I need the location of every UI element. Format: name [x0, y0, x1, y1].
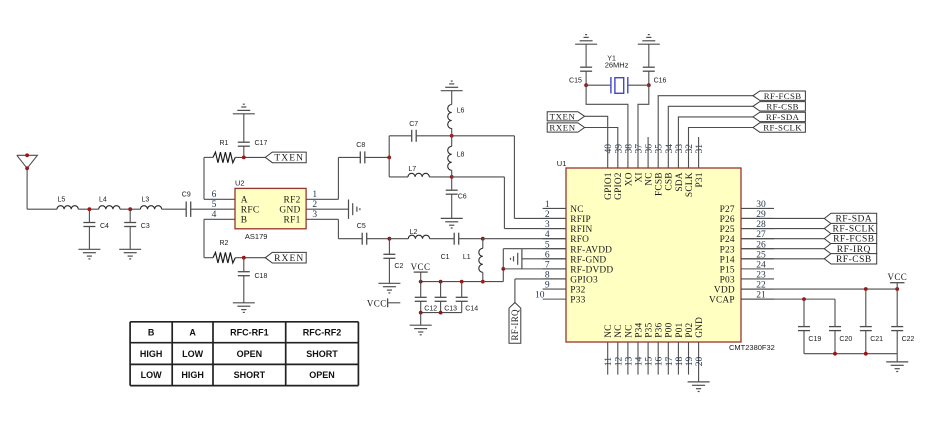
- svg-text:34: 34: [665, 144, 675, 154]
- svg-text:26MHz: 26MHz: [605, 60, 629, 69]
- svg-text:P02: P02: [685, 322, 695, 337]
- svg-text:RFC-RF2: RFC-RF2: [303, 327, 342, 337]
- svg-text:LOW: LOW: [141, 370, 162, 380]
- svg-text:VCC: VCC: [367, 299, 387, 309]
- svg-text:15: 15: [645, 356, 655, 366]
- svg-text:A: A: [189, 327, 196, 337]
- svg-text:A: A: [241, 196, 248, 206]
- svg-text:RF1: RF1: [284, 216, 301, 226]
- svg-text:C8: C8: [356, 142, 365, 149]
- svg-text:C1: C1: [441, 254, 450, 261]
- svg-text:NC: NC: [570, 205, 583, 215]
- svg-text:P01: P01: [675, 322, 685, 337]
- svg-text:RF-FCSB: RF-FCSB: [764, 91, 802, 101]
- svg-text:L7: L7: [408, 166, 416, 173]
- svg-text:U2: U2: [235, 178, 245, 187]
- svg-text:16: 16: [655, 356, 665, 366]
- svg-text:RFC-RF1: RFC-RF1: [230, 327, 269, 337]
- svg-text:VCC: VCC: [887, 272, 907, 282]
- svg-text:C7: C7: [409, 121, 418, 128]
- svg-text:RXEN: RXEN: [549, 123, 575, 133]
- svg-text:L6: L6: [457, 107, 465, 114]
- svg-text:GPIO3: GPIO3: [570, 276, 598, 286]
- svg-text:GND: GND: [279, 206, 300, 216]
- svg-text:31: 31: [695, 144, 705, 154]
- svg-text:C20: C20: [839, 336, 852, 343]
- svg-text:FCSB: FCSB: [655, 172, 665, 196]
- svg-text:C22: C22: [902, 336, 915, 343]
- svg-text:NC: NC: [624, 324, 634, 337]
- svg-text:39: 39: [614, 144, 624, 154]
- svg-text:GPIO1: GPIO1: [604, 172, 614, 200]
- svg-text:24: 24: [756, 260, 766, 270]
- svg-text:9: 9: [545, 281, 550, 291]
- svg-text:L3: L3: [142, 196, 150, 203]
- svg-text:C2: C2: [394, 263, 403, 270]
- svg-text:P31: P31: [695, 172, 705, 187]
- svg-text:P36: P36: [655, 322, 665, 337]
- svg-text:GPIO2: GPIO2: [614, 172, 624, 200]
- svg-text:17: 17: [665, 356, 675, 366]
- svg-text:R1: R1: [220, 140, 229, 147]
- svg-text:P27: P27: [720, 205, 735, 215]
- svg-text:C6: C6: [458, 194, 467, 201]
- svg-text:RF-IRQ: RF-IRQ: [510, 309, 520, 341]
- svg-text:RF-DVDD: RF-DVDD: [570, 265, 613, 275]
- svg-text:P14: P14: [720, 255, 735, 265]
- svg-text:B: B: [241, 216, 248, 226]
- svg-text:SHORT: SHORT: [234, 370, 266, 380]
- svg-text:32: 32: [685, 144, 695, 154]
- svg-text:18: 18: [675, 356, 685, 366]
- svg-text:P03: P03: [720, 276, 735, 286]
- svg-text:P32: P32: [570, 286, 585, 296]
- svg-text:HIGH: HIGH: [181, 370, 204, 380]
- svg-text:C13: C13: [444, 306, 457, 313]
- svg-text:HIGH: HIGH: [140, 349, 163, 359]
- svg-text:RFIN: RFIN: [570, 225, 592, 235]
- svg-text:12: 12: [614, 356, 624, 366]
- svg-text:RFIP: RFIP: [570, 215, 591, 225]
- svg-text:L4: L4: [99, 196, 107, 203]
- svg-text:1: 1: [545, 200, 550, 210]
- svg-text:RF-SCLK: RF-SCLK: [763, 123, 802, 133]
- svg-text:5: 5: [212, 200, 217, 210]
- svg-text:P24: P24: [720, 235, 735, 245]
- svg-text:1: 1: [312, 190, 317, 200]
- svg-text:P35: P35: [645, 322, 655, 337]
- svg-text:3: 3: [545, 220, 550, 230]
- svg-text:6: 6: [212, 190, 217, 200]
- svg-text:37: 37: [635, 144, 645, 154]
- svg-text:NC: NC: [614, 324, 624, 337]
- svg-text:38: 38: [624, 144, 634, 154]
- svg-text:C15: C15: [569, 77, 582, 84]
- svg-text:L5: L5: [58, 196, 66, 203]
- svg-text:10: 10: [535, 291, 545, 301]
- svg-text:OPEN: OPEN: [309, 370, 335, 380]
- svg-text:30: 30: [756, 200, 766, 210]
- svg-text:LOW: LOW: [182, 349, 203, 359]
- svg-text:2: 2: [312, 200, 317, 210]
- svg-text:P00: P00: [665, 322, 675, 337]
- svg-text:RF-CSB: RF-CSB: [766, 101, 798, 111]
- svg-text:5: 5: [545, 240, 550, 250]
- svg-text:GND: GND: [695, 317, 705, 338]
- svg-text:20: 20: [695, 356, 705, 366]
- svg-text:L1: L1: [463, 254, 471, 261]
- svg-text:C18: C18: [255, 273, 268, 280]
- svg-text:RF-GND: RF-GND: [570, 255, 606, 265]
- svg-text:19: 19: [685, 356, 695, 366]
- svg-text:P26: P26: [720, 215, 735, 225]
- svg-text:C21: C21: [870, 336, 883, 343]
- svg-text:VCC: VCC: [411, 262, 431, 272]
- svg-text:TXEN: TXEN: [550, 111, 576, 121]
- svg-text:P23: P23: [720, 245, 735, 255]
- svg-text:C9: C9: [182, 191, 191, 198]
- svg-text:RFC: RFC: [241, 206, 260, 216]
- svg-text:NC: NC: [604, 324, 614, 337]
- svg-text:L2: L2: [410, 229, 418, 236]
- svg-text:2: 2: [545, 210, 550, 220]
- svg-text:3: 3: [312, 210, 317, 220]
- svg-text:13: 13: [624, 356, 634, 366]
- svg-text:VCAP: VCAP: [709, 296, 735, 306]
- svg-text:U1: U1: [557, 159, 567, 168]
- svg-text:P25: P25: [720, 225, 735, 235]
- svg-text:40: 40: [604, 144, 614, 154]
- svg-text:35: 35: [655, 144, 665, 154]
- svg-text:SHORT: SHORT: [306, 349, 338, 359]
- svg-text:6: 6: [545, 250, 550, 260]
- svg-text:RF-AVDD: RF-AVDD: [570, 245, 612, 255]
- svg-text:P15: P15: [720, 265, 735, 275]
- svg-text:C16: C16: [654, 77, 667, 84]
- svg-text:C12: C12: [424, 306, 437, 313]
- svg-text:RF-SDA: RF-SDA: [766, 112, 800, 122]
- svg-text:TXEN: TXEN: [274, 154, 304, 164]
- svg-text:RF2: RF2: [284, 196, 301, 206]
- svg-text:P33: P33: [570, 296, 585, 306]
- svg-text:C17: C17: [255, 140, 268, 147]
- svg-text:23: 23: [756, 271, 766, 281]
- svg-text:4: 4: [545, 230, 550, 240]
- svg-text:33: 33: [675, 144, 685, 154]
- svg-text:SCLK: SCLK: [685, 172, 695, 197]
- svg-text:P34: P34: [634, 322, 644, 337]
- svg-text:8: 8: [545, 271, 550, 281]
- svg-text:C3: C3: [141, 223, 150, 230]
- svg-text:7: 7: [545, 260, 550, 270]
- svg-text:XO: XO: [624, 172, 634, 186]
- svg-text:XI: XI: [634, 172, 644, 182]
- svg-text:4: 4: [212, 210, 217, 220]
- svg-text:36: 36: [645, 144, 655, 154]
- svg-text:RXEN: RXEN: [274, 254, 304, 264]
- svg-text:RF-CSB: RF-CSB: [836, 255, 872, 265]
- svg-text:14: 14: [635, 356, 645, 366]
- svg-text:C14: C14: [465, 306, 478, 313]
- svg-text:CSB: CSB: [665, 172, 675, 190]
- svg-text:CMT2380F32: CMT2380F32: [729, 343, 775, 352]
- svg-text:C5: C5: [357, 223, 366, 230]
- svg-text:RFO: RFO: [570, 235, 589, 245]
- svg-text:NC: NC: [645, 172, 655, 185]
- svg-text:B: B: [148, 327, 155, 337]
- svg-text:C4: C4: [100, 223, 109, 230]
- svg-text:L8: L8: [457, 151, 465, 158]
- svg-text:AS179: AS179: [245, 232, 268, 241]
- svg-text:SDA: SDA: [675, 172, 685, 191]
- svg-text:11: 11: [604, 357, 614, 366]
- svg-text:R2: R2: [220, 240, 229, 247]
- svg-text:VDD: VDD: [714, 286, 735, 296]
- svg-text:OPEN: OPEN: [237, 349, 263, 359]
- svg-text:C19: C19: [808, 336, 821, 343]
